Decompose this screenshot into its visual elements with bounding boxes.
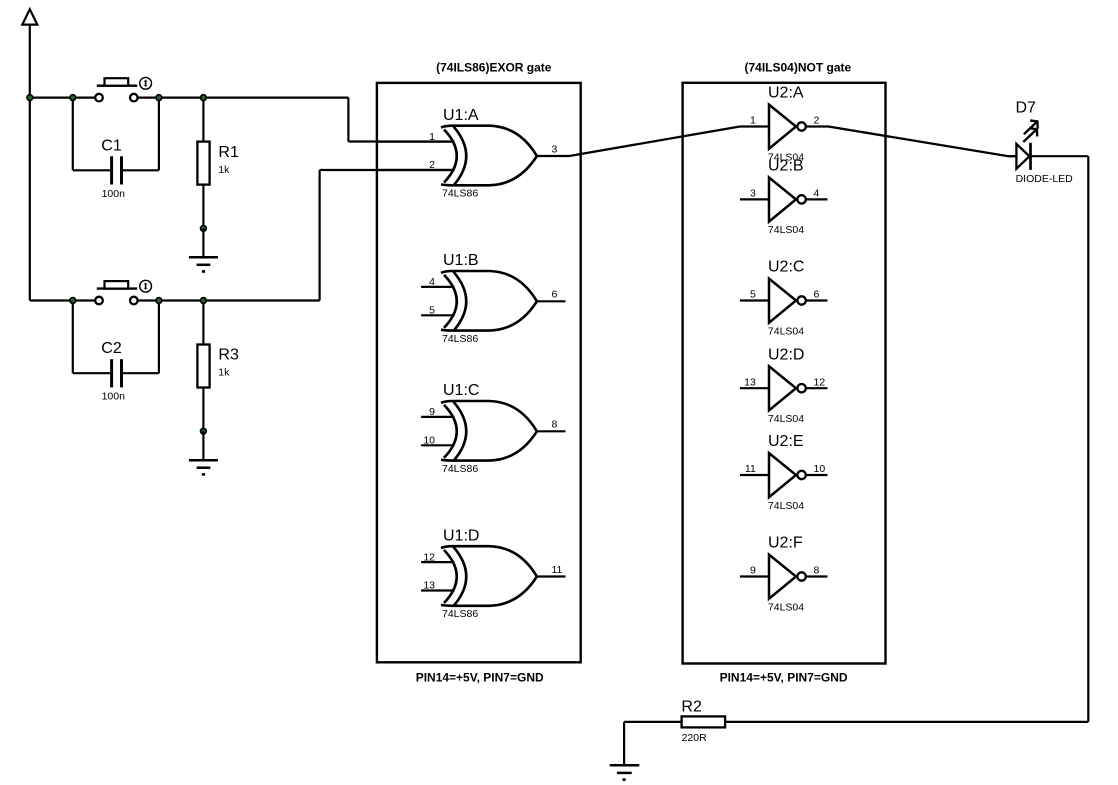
wire U1:A output to U2:A input xyxy=(565,127,740,157)
op NOT gate U2:C xyxy=(740,259,828,338)
svg-text:U2:E: U2:E xyxy=(768,433,804,450)
wire row1 rail left segment xyxy=(30,96,95,98)
wire power rail vertical xyxy=(29,25,31,301)
op NOT gate U2:B xyxy=(740,158,828,237)
wire U1:A pin 1 xyxy=(348,140,454,142)
svg-text:U2:C: U2:C xyxy=(768,259,804,276)
wire row2 rail right segment xyxy=(138,299,320,301)
junction C1 right xyxy=(156,95,162,101)
op XOR gate U1:A xyxy=(377,107,566,200)
LED D7 xyxy=(1016,100,1074,185)
push button SW2 xyxy=(95,280,151,304)
wire right edge vertical xyxy=(1087,156,1089,722)
svg-text:C1: C1 xyxy=(101,137,122,154)
junction R1 bottom xyxy=(201,226,207,232)
svg-text:U1:C: U1:C xyxy=(443,382,479,399)
wire row2 rail left segment xyxy=(30,299,95,301)
svg-text:U1:B: U1:B xyxy=(443,252,479,269)
svg-text:10: 10 xyxy=(814,463,826,475)
svg-text:R2: R2 xyxy=(681,698,702,715)
wire row1 rail right segment xyxy=(138,96,349,98)
op NOT gate U2:F xyxy=(740,535,828,614)
svg-text:6: 6 xyxy=(552,289,558,301)
svg-text:5: 5 xyxy=(429,305,435,317)
svg-text:11: 11 xyxy=(745,463,756,475)
svg-text:13: 13 xyxy=(423,580,435,592)
svg-text:220R: 220R xyxy=(682,732,708,744)
svg-text:74LS86: 74LS86 xyxy=(442,608,478,620)
svg-text:PIN14=+5V, PIN7=GND: PIN14=+5V, PIN7=GND xyxy=(416,671,544,685)
svg-text:(74ILS04)NOT gate: (74ILS04)NOT gate xyxy=(745,60,852,74)
svg-text:D7: D7 xyxy=(1016,100,1037,117)
svg-text:U2:A: U2:A xyxy=(768,85,804,102)
svg-text:U2:B: U2:B xyxy=(768,158,804,175)
power symbol +5V arrow xyxy=(22,9,37,24)
svg-text:U2:F: U2:F xyxy=(768,535,803,552)
wire R2 to ground corner xyxy=(624,721,682,723)
IC body box 74LS04 xyxy=(683,83,886,664)
svg-text:13: 13 xyxy=(744,376,756,388)
capacitor C2 xyxy=(73,301,159,403)
wire ground drop xyxy=(623,722,625,765)
svg-text:U1:D: U1:D xyxy=(443,527,479,544)
wire row1 to pin1 vertical xyxy=(347,98,349,142)
svg-text:2: 2 xyxy=(429,159,435,171)
push button SW1 xyxy=(95,77,151,101)
svg-text:1k: 1k xyxy=(218,367,230,379)
svg-text:C2: C2 xyxy=(101,340,122,357)
svg-text:1: 1 xyxy=(429,131,435,143)
svg-text:U2:D: U2:D xyxy=(768,346,804,363)
svg-text:74LS86: 74LS86 xyxy=(442,188,478,200)
svg-text:74LS86: 74LS86 xyxy=(442,463,478,475)
ground below R1 xyxy=(189,228,218,272)
junction C2 right xyxy=(156,298,162,304)
wire D7 cathode right xyxy=(1031,155,1089,157)
svg-text:74LS04: 74LS04 xyxy=(768,325,804,337)
ground below R3 xyxy=(189,431,218,475)
svg-text:74LS04: 74LS04 xyxy=(768,601,804,613)
capacitor C1 xyxy=(73,98,159,200)
svg-text:4: 4 xyxy=(814,188,820,200)
svg-text:DIODE-LED: DIODE-LED xyxy=(1016,173,1074,185)
wire U2:A output to D7 anode xyxy=(827,127,1016,157)
svg-text:(74ILS86)EXOR gate: (74ILS86)EXOR gate xyxy=(436,60,552,74)
svg-text:74LS04: 74LS04 xyxy=(768,413,804,425)
svg-text:8: 8 xyxy=(814,565,820,577)
svg-text:3: 3 xyxy=(552,143,558,155)
op NOT gate U2:D xyxy=(740,346,828,425)
svg-text:100n: 100n xyxy=(102,188,126,200)
op XOR gate U1:B xyxy=(421,252,565,345)
junction power rail row1 xyxy=(27,95,33,101)
svg-text:74LS04: 74LS04 xyxy=(768,224,804,236)
resistor R3 1k xyxy=(197,301,239,432)
svg-text:100n: 100n xyxy=(102,391,126,403)
wire bottom to R2 xyxy=(725,721,1088,723)
svg-text:1k: 1k xyxy=(218,164,230,176)
svg-text:3: 3 xyxy=(750,188,756,200)
svg-text:12: 12 xyxy=(423,551,435,563)
svg-text:5: 5 xyxy=(750,289,756,301)
svg-text:6: 6 xyxy=(814,289,820,301)
svg-text:U1:A: U1:A xyxy=(443,107,479,124)
LED D7 light arrows xyxy=(1023,121,1037,143)
op XOR gate U1:D xyxy=(421,527,565,620)
wire U1:A pin 2 xyxy=(320,169,455,171)
junction R1 top xyxy=(201,95,207,101)
svg-text:74LS86: 74LS86 xyxy=(442,333,478,345)
svg-text:R3: R3 xyxy=(218,347,239,364)
resistor R1 1k xyxy=(197,98,239,229)
ground below R2 xyxy=(610,765,640,781)
svg-text:R1: R1 xyxy=(218,144,239,161)
svg-text:1: 1 xyxy=(750,115,756,127)
op NOT gate U2:E xyxy=(740,433,828,512)
IC body box 74LS86 xyxy=(377,83,581,662)
svg-text:12: 12 xyxy=(814,376,826,388)
svg-text:9: 9 xyxy=(429,406,435,418)
resistor R2 220R xyxy=(681,698,725,743)
svg-text:4: 4 xyxy=(429,276,435,288)
junction C2 left xyxy=(70,298,76,304)
svg-text:PIN14=+5V, PIN7=GND: PIN14=+5V, PIN7=GND xyxy=(720,671,848,685)
wire row2 to pin2 vertical xyxy=(319,170,321,301)
junction C1 left xyxy=(70,95,76,101)
junction R3 top xyxy=(201,298,207,304)
op NOT gate U2:A xyxy=(740,85,828,164)
svg-text:10: 10 xyxy=(423,435,435,447)
svg-text:8: 8 xyxy=(552,419,558,431)
svg-text:74LS04: 74LS04 xyxy=(768,500,804,512)
svg-text:11: 11 xyxy=(552,564,563,576)
svg-text:2: 2 xyxy=(814,115,820,127)
svg-text:9: 9 xyxy=(750,565,756,577)
op XOR gate U1:C xyxy=(421,382,565,475)
junction R3 bottom xyxy=(201,428,207,434)
